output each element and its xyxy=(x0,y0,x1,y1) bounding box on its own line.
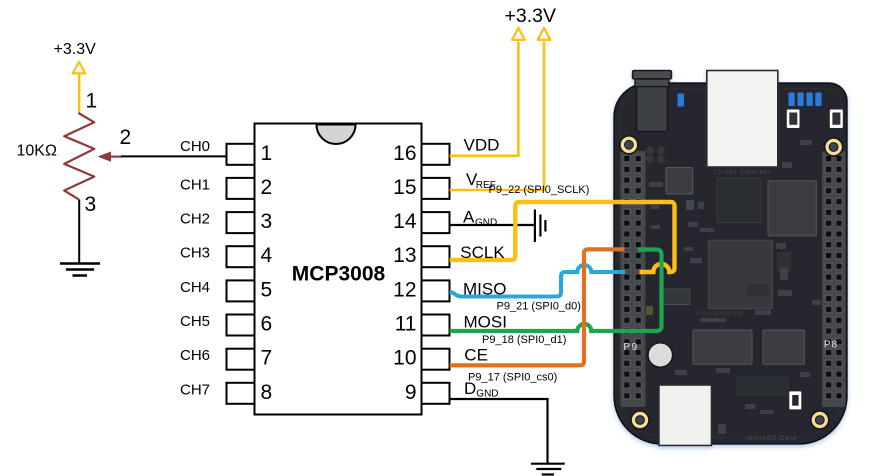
wire MOSI (green) to P9_18 xyxy=(450,250,662,332)
svg-text:P9_18 (SPI0_d1): P9_18 (SPI0_d1) xyxy=(482,334,566,346)
svg-text:10/100 Ethernet: 10/100 Ethernet xyxy=(713,170,771,176)
CH0-CH7 pin labels xyxy=(180,138,210,398)
pin label DGND xyxy=(464,379,499,400)
svg-text:CH3: CH3 xyxy=(180,245,210,262)
svg-text:11: 11 xyxy=(395,313,417,336)
svg-text:P9_22 (SPI0_SCLK): P9_22 (SPI0_SCLK) xyxy=(489,184,590,196)
user button S2 xyxy=(787,110,800,129)
silkscreen texture marks xyxy=(649,140,821,434)
small passive components xyxy=(736,252,791,396)
svg-text:10: 10 xyxy=(393,347,416,370)
U1 pin 15 (VREF) box xyxy=(422,178,450,199)
pot resistive zigzag xyxy=(64,113,94,200)
svg-text:10KΩ: 10KΩ xyxy=(17,143,57,160)
U1 pin 12 (MISO) box xyxy=(422,280,450,301)
supply wire (pot) xyxy=(78,74,80,113)
svg-text:CH5: CH5 xyxy=(180,313,210,330)
svg-text:3: 3 xyxy=(85,193,97,216)
U1 pin 7 (CH6) box xyxy=(227,349,255,370)
wire VDD to +3.3V xyxy=(450,42,519,156)
U1 pin 11 (MOSI) box xyxy=(422,315,450,336)
U1 pin 13 (SCLK) box xyxy=(422,246,450,267)
regulator chip U4 xyxy=(666,168,693,195)
U1 pin 1 (CH0) box xyxy=(227,144,255,165)
svg-text:MISO: MISO xyxy=(463,279,506,298)
svg-text:MOSI: MOSI xyxy=(464,313,507,332)
svg-text:+3.3V: +3.3V xyxy=(505,5,557,27)
wire SCLK (yellow) to P9_22 xyxy=(450,202,675,272)
svg-text:⚛ beaglebone: ⚛ beaglebone xyxy=(692,309,744,318)
svg-text:14: 14 xyxy=(393,210,417,233)
svg-text:microSD Card: microSD Card xyxy=(747,436,797,442)
U1 pin 4 (CH3) box xyxy=(227,246,255,267)
Ethernet connector xyxy=(707,71,778,168)
svg-text:9: 9 xyxy=(405,381,417,404)
svg-text:15: 15 xyxy=(393,176,416,199)
P8 header strip xyxy=(822,151,846,407)
power button S3 xyxy=(830,110,843,129)
ethernet PHY chip xyxy=(717,179,761,223)
wire AGND to ground xyxy=(450,224,534,226)
IC body xyxy=(255,124,422,415)
svg-text:CE: CE xyxy=(464,346,488,365)
potentiometer R1 10K xyxy=(17,41,132,276)
svg-text:2: 2 xyxy=(261,176,273,199)
svg-text:1: 1 xyxy=(261,142,273,165)
mounting hole bottom-left xyxy=(631,411,649,429)
svg-text:5: 5 xyxy=(261,278,273,301)
wire DGND to ground xyxy=(450,399,548,463)
HDMI framer chip xyxy=(763,330,804,364)
U1 pin 9 (DGND) box xyxy=(422,383,450,404)
svg-text:MCP3008: MCP3008 xyxy=(292,263,386,286)
power LED xyxy=(678,94,685,107)
barrel jack J1 xyxy=(633,71,672,132)
svg-text:6: 6 xyxy=(261,313,273,336)
svg-text:SCLK: SCLK xyxy=(460,243,505,262)
pin label VREF xyxy=(466,170,496,191)
svg-text:7: 7 xyxy=(261,347,273,370)
svg-text:+3.3V: +3.3V xyxy=(54,41,97,58)
svg-text:3: 3 xyxy=(261,210,273,233)
U1 pin 3 (CH2) box xyxy=(227,212,255,233)
svg-text:CH2: CH2 xyxy=(180,211,210,228)
svg-text:CH4: CH4 xyxy=(180,279,210,296)
eMMC chip xyxy=(693,330,752,364)
mounting hole top-right xyxy=(825,138,843,156)
pot wiper arrow xyxy=(99,152,111,161)
supply arrow (pot) xyxy=(73,62,86,74)
svg-text:P9_21 (SPI0_d0): P9_21 (SPI0_d0) xyxy=(497,301,581,313)
board PCB body xyxy=(614,83,847,444)
svg-text:P8: P8 xyxy=(824,340,838,351)
ground symbol (AGND, rotated) xyxy=(535,210,546,243)
svg-text:8: 8 xyxy=(261,381,273,404)
user LEDs bank xyxy=(789,93,822,107)
board PCB inner texture xyxy=(620,89,841,437)
wire VREF to +3.3V xyxy=(450,42,544,191)
U1 pin 8 (CH7) box xyxy=(227,383,255,404)
pot ground wire xyxy=(78,200,80,264)
pin label AGND xyxy=(463,208,497,229)
ground symbol (DGND) xyxy=(531,464,565,475)
P9 header strip xyxy=(621,151,646,407)
tantalum capacitor xyxy=(646,306,653,315)
U1 pin 5 (CH4) box xyxy=(227,280,255,301)
DDR3 memory chip xyxy=(768,181,816,236)
svg-text:P9: P9 xyxy=(623,342,638,353)
svg-text:4: 4 xyxy=(261,244,273,267)
svg-text:16: 16 xyxy=(393,142,416,165)
svg-text:CH0: CH0 xyxy=(180,138,210,155)
svg-text:GND: GND xyxy=(476,389,498,400)
svg-text:CH6: CH6 xyxy=(180,347,210,364)
svg-text:CH1: CH1 xyxy=(180,176,210,193)
svg-text:VDD: VDD xyxy=(464,136,500,155)
wire CE (orange) to P9_17 xyxy=(450,249,625,365)
U1 pin 6 (CH5) box xyxy=(227,315,255,336)
ground symbol (pot) xyxy=(60,264,100,276)
svg-text:1: 1 xyxy=(86,90,98,113)
small IC below header xyxy=(660,289,690,305)
supply arrow right (VREF) xyxy=(538,28,551,40)
mini USB connector xyxy=(659,385,712,446)
MCP3008 IC U1 xyxy=(227,124,450,415)
svg-text:P9_17 (SPI0_cs0): P9_17 (SPI0_cs0) xyxy=(468,371,557,383)
boot button xyxy=(648,343,673,368)
svg-text:A: A xyxy=(463,208,475,227)
svg-text:D: D xyxy=(464,379,476,398)
wire MISO (blue) to P9_21 xyxy=(450,265,625,297)
BeagleBone Black board xyxy=(614,71,847,446)
mounting hole bottom-right xyxy=(811,411,829,429)
U1 pin 14 (AGND) box xyxy=(422,212,450,233)
wire CH0 to pot wiper xyxy=(121,155,227,157)
supply arrow left (VDD) xyxy=(512,28,525,40)
svg-text:CH7: CH7 xyxy=(180,381,210,398)
svg-text:12: 12 xyxy=(393,278,416,301)
electrolytic capacitors cluster xyxy=(646,147,665,163)
U1 pin 10 (CE) box xyxy=(422,349,450,370)
IC notch xyxy=(317,125,356,145)
svg-text:13: 13 xyxy=(393,244,416,267)
AM335x processor chip xyxy=(708,240,772,308)
serial header J1 white xyxy=(789,391,801,409)
U1 pin 16 (VDD) box xyxy=(422,144,450,165)
svg-text:GND: GND xyxy=(475,217,497,228)
svg-text:2: 2 xyxy=(120,126,132,149)
U1 pin 2 (CH1) box xyxy=(227,178,255,199)
mounting hole top-left xyxy=(620,136,638,154)
